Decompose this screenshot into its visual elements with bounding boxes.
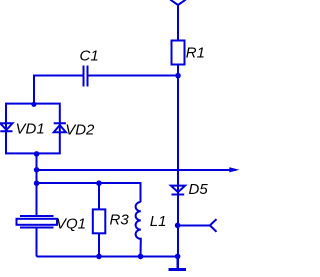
resistor R3 leads — [98, 183, 100, 256]
svg-text:VQ1: VQ1 — [56, 215, 86, 232]
svg-text:R3: R3 — [110, 212, 130, 229]
arrow head bus A — [229, 167, 239, 172]
inductor L1 — [136, 202, 141, 256]
resistor R1 — [172, 41, 185, 65]
crystal VQ1 body rect — [17, 219, 58, 225]
wire D5 down to ground — [177, 195, 179, 257]
capacitor C1 — [84, 66, 88, 87]
node R3 bottom — [96, 254, 102, 260]
diode D5 — [171, 186, 185, 195]
node fork junction — [175, 223, 181, 229]
bottom bus — [37, 255, 178, 257]
crystal VQ1 plates — [20, 216, 54, 228]
node box bottom — [34, 151, 40, 157]
diode VD2 — [54, 123, 66, 132]
bus B — [37, 183, 141, 202]
svg-text:R1: R1 — [186, 44, 205, 61]
node ground junction — [175, 254, 181, 260]
node box top — [31, 102, 36, 107]
svg-text:L1: L1 — [150, 213, 167, 230]
wire R1 bottom to D5 vertical — [177, 65, 179, 195]
antenna fork top — [170, 0, 186, 40]
diode VD1 — [0, 123, 12, 131]
svg-text:C1: C1 — [80, 47, 99, 64]
resistor R3 — [93, 209, 106, 233]
wire C1 horizontal — [34, 75, 178, 77]
wire left vertical bus-column — [36, 153, 38, 215]
box around VD1 VD2 — [6, 104, 60, 154]
svg-text:D5: D5 — [189, 181, 209, 198]
node bus B left — [34, 180, 40, 186]
node C1/R1 junction — [175, 73, 181, 79]
svg-text:VD2: VD2 — [65, 121, 95, 138]
svg-text:VD1: VD1 — [16, 121, 45, 138]
node R3 top — [96, 180, 102, 186]
ground — [169, 256, 186, 269]
fork connector right — [178, 219, 217, 232]
wire VQ1 bottom lead — [36, 229, 38, 257]
node L1 bottom — [138, 254, 144, 260]
wire C1 corner down to box — [33, 75, 35, 104]
node bus A left — [34, 167, 40, 173]
bus A with arrow — [37, 169, 236, 171]
